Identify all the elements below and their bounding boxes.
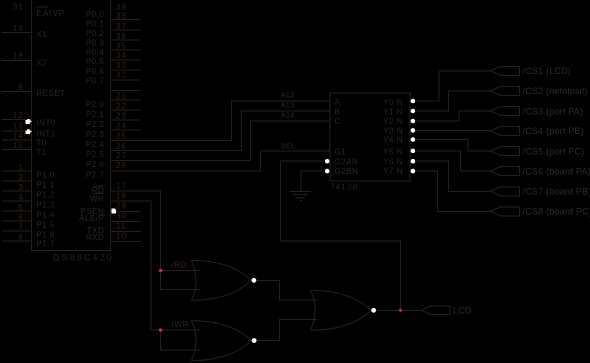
- svg-text:/WR: /WR: [172, 320, 189, 329]
- net tag /CS4 (port PB): [490, 126, 519, 135]
- svg-text:22: 22: [116, 102, 127, 111]
- svg-text:P2.2: P2.2: [86, 120, 105, 129]
- U1 pin 36 P0.3: [111, 39, 142, 41]
- svg-text:A13: A13: [281, 102, 295, 109]
- U2 pin Y7N label: [383, 167, 403, 176]
- svg-text:A: A: [335, 98, 341, 107]
- svg-text:RESET: RESET: [36, 89, 65, 98]
- U1 pin 19 X1: [2, 32, 32, 34]
- svg-text:/CS1 (LCD): /CS1 (LCD): [523, 66, 572, 76]
- svg-text:/RD: /RD: [172, 260, 188, 269]
- svg-text:16: 16: [116, 192, 127, 201]
- net tag /CS6 (board PA): [490, 167, 519, 176]
- net tag /CS3 (port PA): [490, 107, 519, 116]
- svg-text:6: 6: [18, 213, 23, 222]
- U2 inversion bubble G2AN: [325, 159, 330, 164]
- U1 pin 3 P1.2: [2, 190, 32, 192]
- junction on /WR input: [159, 328, 162, 331]
- U3A output bubble: [252, 278, 257, 283]
- svg-text:T1: T1: [36, 148, 46, 157]
- U1 pin 22 P2.1: [111, 109, 142, 111]
- svg-text:P1.1: P1.1: [36, 180, 55, 189]
- U2 part label 74138: [330, 183, 358, 192]
- wire U2 Y6N to /CS7 tag: [415, 161, 490, 191]
- svg-text:P1.5: P1.5: [36, 220, 55, 229]
- svg-text:EA\VP: EA\VP: [36, 8, 65, 18]
- svg-text:36: 36: [116, 32, 127, 41]
- no-connect flag on INT1: [26, 129, 32, 134]
- OR gate U3C (output): [311, 290, 372, 330]
- U1 pin 2 P1.1: [2, 180, 32, 182]
- svg-text:P2.1: P2.1: [86, 110, 105, 119]
- svg-text:26: 26: [116, 142, 127, 151]
- U2 pin Y3N label: [383, 126, 403, 135]
- svg-text:P0.6: P0.6: [86, 67, 105, 76]
- svg-text:7: 7: [18, 222, 23, 231]
- svg-text:T0: T0: [36, 139, 46, 148]
- U1 pin 10 RXD: [111, 241, 142, 243]
- net label /WR: [172, 320, 189, 329]
- net label A12: [281, 92, 295, 99]
- svg-text:13: 13: [13, 122, 24, 131]
- svg-text:Y5 N: Y5 N: [383, 147, 403, 156]
- U1 pin 34 P0.5: [111, 59, 142, 61]
- svg-text:Y4 N: Y4 N: [383, 136, 403, 145]
- U1 pin 38 P0.1: [111, 19, 142, 21]
- svg-text:31: 31: [13, 2, 24, 11]
- U1 pin 26 P2.5 number and label: [86, 142, 127, 159]
- svg-text:INT0: INT0: [36, 119, 55, 128]
- U2 pin Y2N label: [383, 117, 403, 126]
- svg-text:X2: X2: [36, 59, 47, 68]
- U1 pin 25 P2.4 number and label: [86, 132, 127, 149]
- wire net SEL from U1 P2.7 to U2 G1: [111, 151, 331, 171]
- U2 pin G2AN label: [335, 158, 359, 167]
- svg-text:LCD: LCD: [453, 306, 472, 316]
- svg-text:P1.0: P1.0: [36, 170, 55, 179]
- net tag LCD: [421, 306, 450, 315]
- wire net A13 from U1 P2.5 to U2 B: [111, 111, 331, 150]
- U1 pin 8 P1.7: [2, 240, 32, 242]
- OR gate U3A (RD): [191, 260, 251, 300]
- svg-text:P2.4: P2.4: [86, 140, 105, 149]
- U1 pin 39 P0.0: [86, 3, 127, 19]
- svg-text:Y0 N: Y0 N: [383, 98, 403, 107]
- U1 pin 14 T0: [2, 139, 32, 141]
- U1 pin 35 P0.4: [111, 49, 142, 51]
- wire U2 Y7N to /CS8 tag: [415, 171, 490, 211]
- svg-text:37: 37: [116, 22, 127, 31]
- U1 pin 28 P2.7 number and label: [86, 161, 127, 179]
- U3C output bubble: [371, 308, 376, 313]
- svg-text:C: C: [335, 117, 341, 126]
- wire U2 Y1N to /CS2 tag: [415, 91, 490, 111]
- svg-text:Y1 N: Y1 N: [383, 108, 403, 117]
- net tag /CS7 (board PB): [490, 187, 519, 196]
- net tag /CS1 (LCD): [490, 66, 519, 75]
- svg-text:P1.6: P1.6: [36, 230, 55, 239]
- junction on /RD input: [159, 269, 162, 272]
- U2 inversion bubble Y4N: [411, 137, 416, 142]
- wire U2 Y3N to /CS4 tag: [415, 130, 490, 132]
- wire net A14 from U1 P2.6 to U2 C: [111, 121, 331, 161]
- svg-text:RXD: RXD: [86, 233, 104, 242]
- U2 inversion bubble Y5N: [411, 149, 416, 154]
- svg-text:P0.1: P0.1: [86, 20, 105, 29]
- wire U3A output to U3C input: [256, 280, 317, 300]
- U2 inversion bubble Y0N: [411, 99, 416, 104]
- svg-text:P1.3: P1.3: [36, 200, 55, 209]
- U1 pin 1 P1.0: [2, 170, 32, 172]
- svg-text:2: 2: [18, 173, 23, 182]
- svg-text:P2.0: P2.0: [86, 100, 105, 109]
- svg-text:ALE/P: ALE/P: [79, 214, 104, 223]
- net tag /CS5 (port PC): [490, 147, 519, 156]
- svg-text:21: 21: [116, 91, 127, 100]
- U2 inversion bubble Y3N: [411, 128, 416, 133]
- U1 pin 13 INT1: [2, 130, 32, 132]
- U2 pin C label: [335, 117, 341, 126]
- svg-text:11: 11: [116, 221, 126, 230]
- ground symbol: [290, 191, 311, 193]
- net label A14: [281, 112, 295, 119]
- wire /WR gate input loop: [160, 330, 200, 350]
- svg-text:P0.5: P0.5: [86, 57, 105, 66]
- wire net /WR rail from U1 pin 16: [111, 201, 161, 330]
- svg-text:14: 14: [13, 132, 24, 141]
- U1 pin 27 P2.6 number and label: [86, 151, 127, 169]
- svg-text:/CS2 (nefolosit): /CS2 (nefolosit): [523, 86, 588, 96]
- U2 pin Y1N label: [383, 108, 403, 117]
- U1 pin 21 P2.0: [111, 99, 142, 101]
- U1 pin 15 T1: [2, 149, 32, 151]
- wire from U2 G2AN to LCD enable node: [280, 161, 400, 310]
- svg-text:Y2 N: Y2 N: [383, 117, 403, 126]
- svg-text:P1.4: P1.4: [36, 210, 55, 219]
- svg-text:9: 9: [18, 83, 23, 92]
- wire U3B output to U3C input: [257, 320, 317, 341]
- svg-text:P0.4: P0.4: [86, 48, 105, 57]
- U1 pin 23 P2.2: [111, 119, 142, 121]
- svg-text:3: 3: [18, 183, 23, 192]
- svg-text:35: 35: [116, 42, 127, 51]
- net tag /CS8 (board PC): [490, 207, 519, 216]
- svg-text:4: 4: [18, 193, 23, 202]
- svg-text:P2.5: P2.5: [86, 150, 105, 159]
- no-connect flag on PSEN: [112, 208, 117, 213]
- svg-text:SEL: SEL: [281, 144, 296, 151]
- svg-text:29: 29: [116, 201, 127, 210]
- svg-text:P2.7: P2.7: [86, 170, 105, 179]
- svg-text:A14: A14: [281, 112, 295, 119]
- U2 pin Y0N label: [383, 98, 403, 107]
- svg-text:A12: A12: [281, 92, 295, 99]
- net label /RD: [172, 260, 188, 269]
- U2 inversion bubble Y1N: [411, 109, 416, 114]
- U1 pin 33 P0.6: [111, 69, 142, 71]
- net label A13: [281, 102, 295, 109]
- U1 pin 5 P1.4: [2, 210, 32, 212]
- U1 pin 7 P1.6: [2, 230, 32, 232]
- svg-text:P2.3: P2.3: [86, 130, 105, 139]
- svg-text:28: 28: [116, 161, 127, 170]
- U2 pin Y5N label: [383, 147, 403, 156]
- svg-text:12: 12: [13, 111, 24, 120]
- svg-text:/CS5 (port PC): /CS5 (port PC): [523, 146, 585, 156]
- svg-text:P0.3: P0.3: [86, 39, 105, 48]
- svg-text:P0.7: P0.7: [86, 76, 105, 85]
- svg-text:5: 5: [18, 203, 23, 212]
- svg-text:15: 15: [13, 141, 24, 150]
- U2 inversion bubble G2BN: [325, 169, 330, 174]
- svg-text:23: 23: [116, 112, 127, 121]
- net tag /CS2 (nefolosit): [490, 86, 519, 95]
- U2 pin B label: [335, 107, 341, 116]
- wire U3C output to LCD tag: [376, 309, 421, 311]
- svg-text:10: 10: [116, 232, 127, 241]
- U1 pin 24 P2.3: [111, 129, 142, 131]
- U2 pin Y6N label: [383, 158, 403, 167]
- U2 pin A label: [335, 98, 341, 107]
- svg-text:33: 33: [116, 61, 127, 70]
- wire U2 Y2N to /CS3 tag: [415, 111, 490, 121]
- wire U2 Y5N to /CS6 tag: [415, 151, 490, 171]
- svg-text:/CS7 (board PB): /CS7 (board PB): [523, 187, 590, 197]
- svg-text:Y7 N: Y7 N: [383, 167, 403, 176]
- svg-text:25: 25: [116, 132, 127, 141]
- svg-text:74138: 74138: [330, 183, 358, 192]
- svg-text:38: 38: [116, 12, 127, 21]
- U2 pin Y4N label: [383, 136, 403, 145]
- svg-text:30: 30: [116, 211, 127, 220]
- svg-text:/CS8 (board PC): /CS8 (board PC): [523, 207, 590, 217]
- svg-text:/CS3 (port PA): /CS3 (port PA): [523, 106, 584, 116]
- svg-text:P0.0: P0.0: [86, 10, 105, 19]
- svg-text:Y6 N: Y6 N: [383, 158, 403, 167]
- wire U2 Y4N to /CS5 tag: [415, 140, 490, 152]
- svg-text:X1: X1: [36, 30, 47, 39]
- wire from U2 G2BN to ground: [301, 171, 325, 191]
- wire net A12 from U1 P2.4 to U2 A: [111, 101, 331, 140]
- svg-text:19: 19: [13, 24, 24, 33]
- U1 pin 37 P0.2: [111, 29, 142, 31]
- svg-text:DS89C420: DS89C420: [53, 253, 114, 263]
- U1 pin 9 RESET: [2, 91, 32, 93]
- microcontroller U1 DS89C420 body: [32, 0, 111, 251]
- U1 pin 4 P1.3: [2, 200, 32, 202]
- U1 pin 11 TXD: [111, 230, 142, 232]
- svg-text:G2BN: G2BN: [335, 167, 359, 176]
- U1 pin 16 WR number and label: [90, 192, 127, 204]
- svg-text:P1.7: P1.7: [36, 239, 55, 248]
- U2 pin G2BN label: [335, 167, 359, 176]
- svg-text:/CS4 (port PB): /CS4 (port PB): [523, 126, 584, 136]
- U1 pin 30 ALE/P: [111, 220, 142, 222]
- wire U2 Y0N to /CS1 tag: [415, 71, 490, 101]
- U1 pin 31 EA/VP: [13, 2, 65, 18]
- U1 part label DS89C420: [53, 253, 114, 263]
- no-connect flag on INT0: [26, 119, 32, 124]
- svg-text:P1.2: P1.2: [36, 190, 55, 199]
- decoder U2 74138 body: [330, 93, 410, 181]
- junction LCD enable node: [399, 309, 402, 312]
- U1 pin 29 PSEN: [111, 210, 142, 212]
- svg-text:G1: G1: [335, 147, 347, 156]
- wire /RD gate input loop: [160, 271, 200, 290]
- U3B output bubble: [252, 338, 257, 343]
- net label SEL: [281, 144, 296, 151]
- wire net /RD rail from U1 pin 17: [111, 191, 161, 270]
- U1 pin 12 INT0: [2, 119, 32, 121]
- svg-text:INT1: INT1: [36, 130, 55, 139]
- svg-text:B: B: [335, 107, 341, 116]
- U2 inversion bubble Y6N: [411, 159, 416, 164]
- U2 pin G1 label: [335, 147, 347, 156]
- svg-text:32: 32: [116, 71, 127, 80]
- OR gate U3B (WR): [191, 321, 251, 361]
- svg-text:34: 34: [116, 51, 127, 60]
- svg-text:P0.2: P0.2: [86, 29, 105, 38]
- U1 P0 block lower stub: [111, 89, 142, 91]
- svg-text:1: 1: [18, 163, 23, 172]
- svg-text:P2.6: P2.6: [86, 160, 105, 169]
- U2 inversion bubble Y2N: [411, 119, 416, 124]
- U1 pin 6 P1.5: [2, 220, 32, 222]
- svg-text:24: 24: [116, 122, 127, 131]
- svg-text:18: 18: [13, 52, 24, 61]
- U1 pin 17 RD number and label: [92, 182, 127, 196]
- svg-text:G2AN: G2AN: [335, 158, 359, 167]
- svg-text:17: 17: [116, 182, 127, 191]
- svg-text:8: 8: [18, 233, 23, 242]
- svg-text:WR: WR: [90, 195, 104, 204]
- U1 pin 32 P0.7: [111, 79, 142, 81]
- svg-text:27: 27: [116, 151, 127, 160]
- U2 inversion bubble Y7N: [411, 169, 416, 174]
- U1 pin 18 X2: [2, 59, 32, 61]
- svg-text:/CS6 (board PA): /CS6 (board PA): [523, 167, 590, 177]
- svg-text:Y3 N: Y3 N: [383, 126, 403, 135]
